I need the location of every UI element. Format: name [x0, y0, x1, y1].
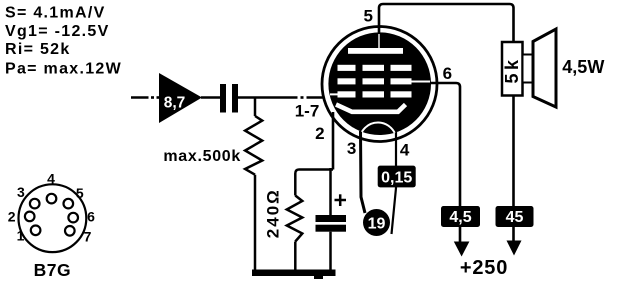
svg-text:19: 19 [368, 215, 386, 232]
svg-text:5: 5 [364, 7, 373, 26]
svg-text:6: 6 [443, 64, 452, 83]
svg-text:Pa= max.12W: Pa= max.12W [5, 61, 122, 78]
svg-text:4: 4 [47, 171, 55, 187]
svg-text:8,7: 8,7 [164, 95, 186, 112]
svg-text:Vg1= -12.5V: Vg1= -12.5V [5, 23, 110, 40]
svg-text:3: 3 [347, 139, 356, 158]
svg-text:45: 45 [506, 209, 524, 226]
svg-text:Ri= 52k: Ri= 52k [5, 41, 71, 58]
svg-text:7: 7 [84, 229, 92, 245]
svg-text:3: 3 [17, 184, 25, 200]
svg-text:max.500k: max.500k [163, 148, 241, 165]
svg-text:S= 4.1mA/V: S= 4.1mA/V [5, 4, 106, 21]
svg-text:240Ω: 240Ω [263, 188, 282, 238]
svg-text:2: 2 [315, 124, 324, 143]
svg-text:5: 5 [76, 185, 84, 201]
svg-text:4,5W: 4,5W [562, 57, 604, 77]
svg-text:+250: +250 [460, 257, 508, 279]
svg-text:4,5: 4,5 [449, 209, 471, 226]
svg-text:6: 6 [87, 209, 95, 225]
svg-text:B7G: B7G [34, 260, 71, 280]
svg-text:0,15: 0,15 [381, 170, 412, 187]
svg-text:5k: 5k [502, 56, 522, 83]
svg-text:1: 1 [17, 228, 25, 244]
svg-text:1-7: 1-7 [295, 102, 320, 121]
svg-text:2: 2 [8, 209, 16, 225]
svg-text:4: 4 [400, 141, 410, 160]
